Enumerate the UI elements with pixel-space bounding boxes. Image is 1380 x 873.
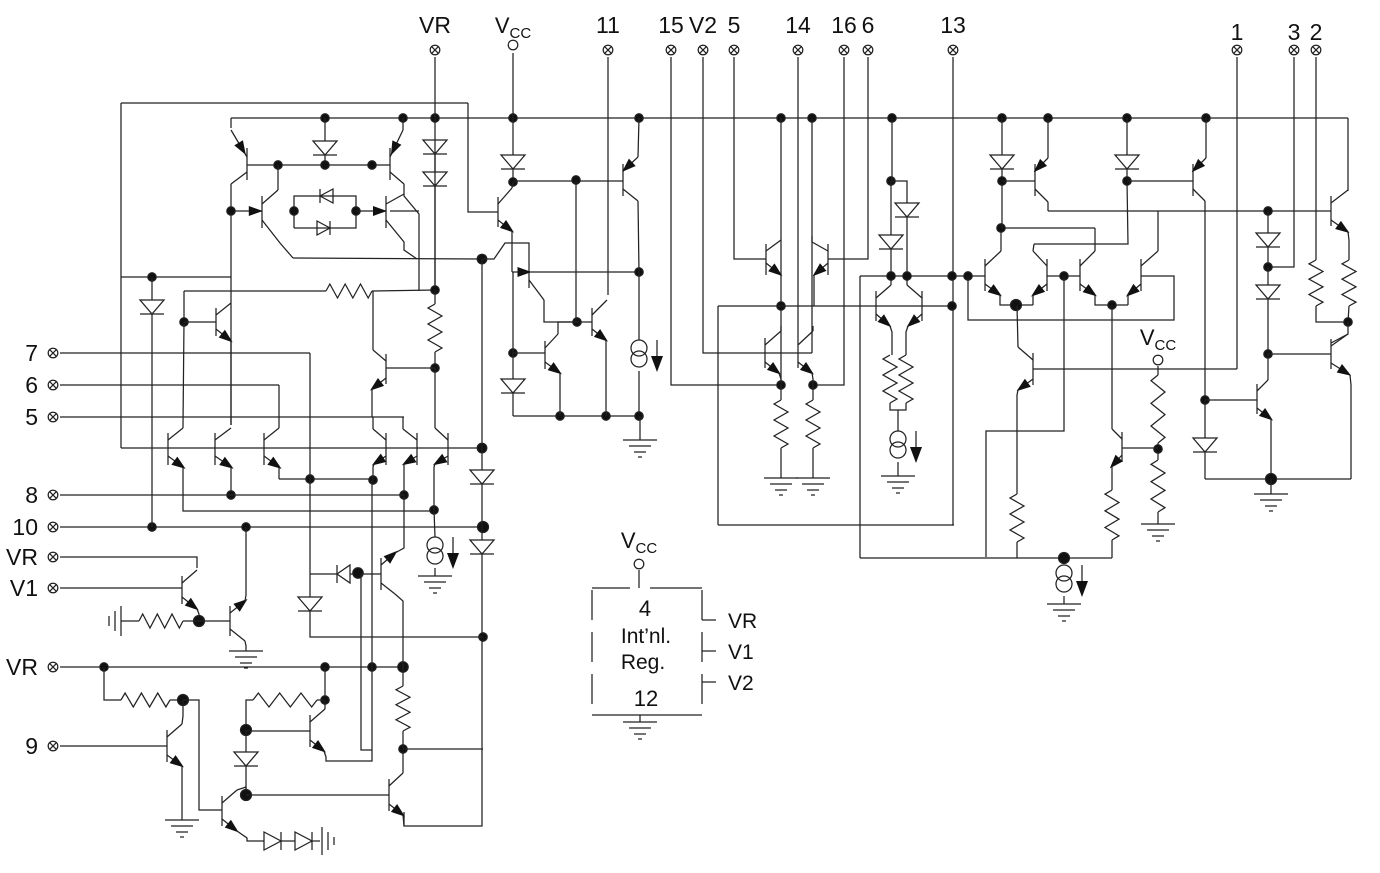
junction VR2 b bbox=[321, 663, 329, 671]
wire quad emitters a2 bbox=[1032, 295, 1034, 305]
wire R12 out bbox=[1348, 306, 1349, 322]
junction pair left bbox=[290, 207, 298, 215]
wire R2 top bbox=[434, 290, 436, 304]
wire D12 anode bbox=[1001, 118, 1003, 155]
wire Q28 emitter top bbox=[1047, 118, 1049, 158]
junction y276 d10 bbox=[903, 272, 911, 280]
wire Qbig base line bbox=[246, 794, 389, 796]
resistor R7 bbox=[1010, 494, 1024, 542]
resistor R4 bbox=[899, 355, 913, 403]
svg-text:14: 14 bbox=[785, 12, 811, 38]
resistor R16 bbox=[396, 686, 410, 731]
wire chassis to R13 bbox=[121, 620, 139, 622]
wire Q34 base bbox=[1205, 399, 1257, 401]
diode D1 bbox=[313, 141, 337, 155]
wire box VR stub bbox=[702, 619, 716, 621]
arrow Q13 emitter bbox=[518, 267, 532, 277]
diode D11 bbox=[879, 235, 903, 249]
wire pin7 down2 bbox=[309, 479, 311, 574]
wire V1 line bbox=[60, 587, 182, 589]
wire Q9row collector bbox=[372, 417, 374, 429]
wire jog right bbox=[891, 181, 907, 203]
wire Q2 collector down bbox=[404, 184, 419, 291]
wire Q35 emitter bbox=[197, 609, 199, 621]
wire VR2 branch bbox=[104, 667, 121, 700]
transistor Q39 npn bbox=[310, 709, 326, 753]
junction on VCC bus x=1048 bbox=[1044, 114, 1052, 122]
current source I2 bbox=[631, 340, 663, 372]
wire to QbotC base bbox=[183, 700, 222, 810]
wire pin9 line bbox=[60, 745, 167, 747]
wire Q28 base bbox=[1002, 180, 1035, 182]
junction quad em b bbox=[1108, 301, 1116, 309]
wire Q41 collector down bbox=[395, 594, 403, 667]
chassis symbol 1 bbox=[109, 606, 121, 636]
ground G1 bbox=[418, 576, 452, 593]
wire Q3 collector run y259 bbox=[293, 258, 482, 259]
wire R15 left corner bbox=[246, 700, 253, 730]
wire Q23 collector bbox=[812, 326, 814, 331]
wire VR pin lead bbox=[434, 57, 436, 290]
svg-text:4: 4 bbox=[639, 596, 651, 621]
wire Q22-Q23 base tie bbox=[765, 352, 812, 354]
junction y276 13b bbox=[964, 272, 972, 280]
wire pin8 line bbox=[60, 494, 404, 496]
junction y416 a bbox=[556, 412, 564, 420]
pin V2 terminal bbox=[698, 45, 708, 55]
ground G4 bbox=[764, 478, 798, 495]
wire y416 gnd stub bbox=[639, 416, 641, 440]
resistor R13 bbox=[139, 614, 183, 628]
svg-text:Int’nl.: Int’nl. bbox=[621, 625, 671, 648]
arrow Q3 emitter bbox=[249, 206, 263, 216]
wire pin 11 lead bbox=[607, 57, 609, 295]
junction quad base mid bbox=[1060, 272, 1068, 280]
wire Q3 emitter bbox=[231, 210, 262, 212]
wire pair emitter join b bbox=[906, 326, 908, 355]
junction on VCC bus x=403 bbox=[399, 114, 407, 122]
junction D13 node bbox=[1123, 177, 1131, 185]
transistor Q1 pnp bbox=[231, 130, 247, 184]
wire rail corner to Q5 base bbox=[183, 291, 185, 322]
transistor Q32 npn bbox=[1331, 190, 1350, 233]
chassis symbol 2 bbox=[322, 827, 334, 855]
wire pin 15 lead bbox=[671, 57, 781, 385]
wire D11 out bbox=[890, 249, 892, 276]
wire D8 out bbox=[512, 169, 514, 182]
wire base rail y448 bbox=[121, 447, 482, 449]
wire loop y525 bbox=[718, 524, 954, 526]
pin 14 terminal bbox=[793, 45, 803, 55]
wire Q9row emitter bbox=[373, 464, 374, 480]
transistor Q40 npn bbox=[389, 773, 405, 817]
transistor Q35 npn bbox=[182, 570, 199, 610]
wire loop up x860 bbox=[859, 276, 861, 558]
wire R16 bottom lead bbox=[402, 731, 404, 749]
wire D5 out bbox=[434, 186, 436, 290]
wire Q34 emitter bbox=[1270, 419, 1272, 479]
junction pin10 b bbox=[242, 523, 250, 531]
wire long rail x482 upper bbox=[481, 259, 483, 470]
wire D20 left bbox=[310, 573, 337, 575]
wire I1 top bbox=[434, 510, 435, 537]
ground G2 bbox=[623, 440, 657, 457]
wire Q6row emitter bbox=[183, 467, 434, 511]
wire D21 out y637 bbox=[310, 611, 483, 637]
left pin 9 terminal bbox=[48, 741, 58, 751]
pin VR terminal bbox=[430, 45, 440, 55]
wire Q14 collector down bbox=[638, 201, 639, 272]
transistor Q13 pnp bbox=[529, 256, 544, 300]
left pin 7 terminal bbox=[48, 348, 58, 358]
svg-text:VR: VR bbox=[6, 544, 38, 570]
transistor Q23 npn bbox=[798, 331, 814, 375]
wire Q12 collector bbox=[512, 182, 513, 188]
wire R15 out right bbox=[317, 699, 325, 701]
resistor R8 bbox=[1151, 375, 1165, 443]
svg-text:10: 10 bbox=[12, 514, 38, 540]
wire pin10 line bbox=[60, 526, 483, 528]
current source I4 bbox=[1056, 565, 1088, 597]
svg-text:6: 6 bbox=[25, 372, 38, 398]
wire Q29 collector rail bbox=[1204, 201, 1206, 400]
junction R1 right bbox=[431, 286, 439, 294]
junction Q3 emitter node bbox=[227, 207, 235, 215]
wire Q16 emitter bbox=[605, 340, 607, 416]
wire x576 link bbox=[575, 180, 577, 322]
wire Q5m collector up bbox=[372, 291, 374, 350]
svg-text:VR: VR bbox=[419, 12, 451, 38]
wire QR1b collector feed bbox=[1331, 322, 1348, 343]
wire Q23 emitter bbox=[812, 373, 813, 385]
wire R9 out bbox=[1157, 512, 1159, 524]
svg-text:1: 1 bbox=[1231, 19, 1244, 45]
wire D19 out bbox=[245, 766, 247, 795]
wire D17-D18 bbox=[281, 840, 295, 842]
resistor R12 bbox=[1342, 260, 1356, 306]
wire y211 line bbox=[1048, 210, 1268, 212]
svg-text:VR: VR bbox=[728, 610, 757, 633]
wire pin 2 lead bbox=[1315, 57, 1317, 260]
transistor Q3 pnp bbox=[262, 190, 293, 258]
wire Q7row emitter bbox=[230, 467, 232, 495]
wire Q30 collector bbox=[1017, 306, 1018, 347]
wire y558 line bbox=[860, 557, 1112, 559]
wire top-left frame top bbox=[121, 102, 468, 104]
block Int'nl Reg dashed box bbox=[592, 588, 702, 715]
transistor Q10 npn row bbox=[402, 429, 417, 465]
wire D18 out bbox=[312, 840, 320, 842]
wire Q1 collector rail bbox=[230, 184, 232, 425]
wire QbotB base line bbox=[246, 730, 310, 732]
wire Q2 emitter top bbox=[402, 118, 404, 130]
svg-text:V2: V2 bbox=[689, 12, 717, 38]
wire D19 anode bbox=[245, 730, 247, 752]
wire y479 line bbox=[279, 478, 373, 480]
wire quad base mid bbox=[1047, 275, 1080, 277]
terminal VCC3 bbox=[634, 559, 644, 569]
ground G10 bbox=[165, 820, 199, 837]
pin 16 terminal bbox=[839, 45, 849, 55]
wire x891 down bbox=[890, 181, 892, 235]
wire pin5 line bbox=[60, 416, 404, 418]
ground G6 bbox=[1047, 604, 1081, 621]
wire long rail x482 mid bbox=[481, 484, 483, 540]
diode D10 bbox=[895, 203, 919, 217]
wire Q36 emitter up bbox=[245, 527, 246, 601]
svg-text:V1: V1 bbox=[10, 575, 38, 601]
resistor R5 bbox=[774, 400, 788, 448]
wire I1 bottom bbox=[434, 568, 436, 576]
junction y416 b bbox=[602, 412, 610, 420]
junction y558 bbox=[1059, 553, 1070, 564]
wire Q41 emitter up bbox=[395, 495, 404, 553]
wire I2 out bbox=[638, 371, 640, 416]
wire Q39 emitter loop bbox=[324, 480, 372, 761]
transistor Q25 npn quad bbox=[1031, 251, 1047, 297]
junction base rail b bbox=[321, 161, 329, 169]
wire VCC3 lead bbox=[638, 570, 640, 588]
wire Q19 collector diag bbox=[811, 236, 813, 242]
wire quad emitters b bbox=[1095, 295, 1128, 305]
diode D5 bbox=[423, 172, 447, 186]
transistor Q34 npn bbox=[1257, 380, 1273, 421]
junction on VCC bus x=435 bbox=[431, 114, 439, 122]
junction R11 R12 bbox=[1344, 318, 1352, 326]
junction y276 13a bbox=[948, 272, 956, 280]
transistor Q41 npn bbox=[381, 551, 398, 594]
wire box bottom stub bbox=[121, 276, 231, 278]
wire long rail x482 lower bbox=[404, 554, 482, 826]
junction R8 node bbox=[1154, 445, 1162, 453]
wire R2 bottom bbox=[434, 352, 436, 368]
left pin 8 terminal bbox=[48, 490, 58, 500]
wire pin 5 lead bbox=[734, 57, 766, 259]
wire pin 14 lead bbox=[797, 57, 799, 338]
wire Q25 collector bbox=[1033, 244, 1034, 251]
transistor Q8 npn row bbox=[264, 428, 282, 469]
diode D16 bbox=[1193, 438, 1217, 452]
resistor R1 bbox=[326, 284, 372, 298]
pin 11 terminal bbox=[603, 45, 613, 55]
wire Q15 collector bbox=[558, 322, 577, 334]
junction base node bbox=[194, 616, 205, 627]
transistor Q6 npn row bbox=[168, 428, 186, 469]
junction y211 right bbox=[1264, 207, 1272, 215]
wire Q13 out diag bbox=[544, 300, 577, 322]
wire D6 anode bbox=[151, 277, 153, 300]
junction on VCC bus x=812 bbox=[808, 114, 816, 122]
pin 1 terminal bbox=[1232, 45, 1242, 55]
svg-text:VCC: VCC bbox=[621, 528, 658, 557]
diode D13 bbox=[1115, 155, 1139, 169]
resistor R11 bbox=[1309, 260, 1323, 306]
wire x892 from bus bbox=[891, 118, 893, 181]
diode D8 bbox=[501, 155, 525, 169]
wire bus right corner down bbox=[1347, 118, 1349, 191]
junction quad em a bbox=[1011, 300, 1022, 311]
wire Q30 base line y369 bbox=[1033, 368, 1237, 370]
diode D12 bbox=[990, 155, 1014, 169]
svg-text:16: 16 bbox=[831, 12, 857, 38]
wire R5 bottom bbox=[780, 448, 782, 478]
wire Q24-Q26 collector tie bbox=[1001, 227, 1095, 229]
wire D6 cathode bbox=[151, 314, 153, 527]
wire R16 top bbox=[402, 667, 404, 686]
diode D20 left-pointing bbox=[337, 565, 350, 583]
junction y322 node bbox=[573, 318, 581, 326]
wire base line y276 bbox=[860, 275, 985, 277]
transistor Q11 npn row bbox=[433, 428, 448, 465]
wire Q8row collector bbox=[278, 385, 280, 428]
left pin VR terminal bbox=[48, 662, 58, 672]
wire quad emitters b2 bbox=[1127, 295, 1129, 305]
pin 5 terminal bbox=[729, 45, 739, 55]
wire pin 13 lead bbox=[952, 57, 954, 525]
junction on VCC bus x=513 bbox=[509, 114, 517, 122]
wire Q33 emitter bbox=[1350, 375, 1351, 479]
left pin 6 terminal bbox=[48, 380, 58, 390]
wire pin7 down bbox=[309, 353, 311, 479]
wire Q19 emitter down bbox=[813, 275, 815, 306]
diode D18 bbox=[295, 832, 312, 850]
left pin 5 terminal bbox=[48, 412, 58, 422]
wire Q31 emitter bbox=[1111, 466, 1113, 490]
wire D10 out bbox=[906, 217, 908, 276]
wire Q15 emitter bbox=[559, 373, 561, 416]
junction pin3 node bbox=[1264, 263, 1272, 271]
junction x1205 y400 bbox=[1201, 396, 1209, 404]
pin 3 terminal bbox=[1289, 45, 1299, 55]
transistor Q33 npn bbox=[1331, 334, 1351, 376]
svg-text:8: 8 bbox=[25, 482, 38, 508]
wire frame corner down to Q6 base bbox=[468, 103, 498, 212]
wire pin 6 lead bbox=[828, 57, 868, 259]
svg-text:V1: V1 bbox=[728, 641, 754, 664]
transistor Q24 npn quad bbox=[985, 251, 1002, 296]
wire pin 1 lead bbox=[1236, 57, 1238, 369]
junction y322 left bbox=[180, 318, 188, 326]
resistor R14 bbox=[121, 693, 170, 707]
wire loop down x718 bbox=[717, 306, 719, 525]
pin VCC terminal bbox=[508, 40, 518, 50]
wire base to Q36 bbox=[199, 620, 230, 622]
resistor R3 bbox=[883, 355, 897, 403]
junction pair right bbox=[352, 207, 360, 215]
junction on VCC bus x=1206 bbox=[1202, 114, 1210, 122]
transistor Q5m pnp bbox=[370, 350, 386, 391]
diode D21 bbox=[298, 597, 322, 611]
ground G3 bbox=[881, 476, 915, 493]
junction D20 node bbox=[353, 568, 363, 578]
ground G7 bbox=[1141, 524, 1175, 541]
transistor Q20 npn pair bbox=[876, 285, 891, 327]
junction x781 y306 bbox=[777, 302, 785, 310]
junction R16 bottom bbox=[399, 745, 407, 753]
diode D19 bbox=[234, 752, 258, 766]
transistor Q26 npn quad bbox=[1080, 251, 1097, 296]
wire emitter rail y416 bbox=[513, 415, 640, 417]
diode D17 bbox=[264, 832, 281, 850]
wire Q33 base bbox=[1268, 353, 1331, 355]
wire VCC2 lead bbox=[1157, 366, 1159, 375]
wire Q38 emitter bbox=[181, 766, 183, 820]
wire Q32 base bbox=[1268, 210, 1331, 212]
terminal VCC2 bbox=[1153, 355, 1163, 365]
wire x812 rail bbox=[811, 118, 813, 353]
transistor Q28 pnp bbox=[1034, 158, 1048, 202]
wire Q14 emitter top bbox=[638, 118, 639, 157]
wire Q10row collector bbox=[402, 417, 404, 429]
wire Q16 base bbox=[577, 321, 592, 323]
wire Q5m emitter down bbox=[371, 389, 373, 417]
svg-text:VCC: VCC bbox=[495, 13, 532, 42]
junction collector tie bbox=[997, 224, 1005, 232]
wire VCC pin lead bbox=[512, 53, 514, 155]
wire Q37 emitter bbox=[237, 831, 264, 841]
transistor Q21 npn pair bbox=[907, 285, 922, 327]
wire Q3 top to base rail bbox=[277, 165, 279, 190]
left pin 10 terminal bbox=[48, 522, 58, 532]
ground G11 bbox=[623, 722, 657, 739]
transistor Q12 npn bbox=[498, 188, 514, 233]
transistor Q14 pnp bbox=[622, 157, 638, 201]
wire gnd stub right bbox=[1270, 479, 1272, 494]
wire R11 out bbox=[1316, 306, 1348, 322]
wire D16 anode bbox=[1204, 400, 1206, 438]
svg-text:15: 15 bbox=[658, 12, 684, 38]
wire Q22 collector bbox=[780, 326, 782, 331]
wire D13 anode bbox=[1126, 118, 1128, 155]
wire R13 out bbox=[183, 620, 199, 622]
wire pin7 line bbox=[60, 352, 310, 354]
junction left y353 bbox=[509, 349, 517, 357]
resistor R9 bbox=[1151, 460, 1165, 512]
transistor Q9 npn row bbox=[372, 429, 386, 466]
junction y479 a bbox=[306, 475, 314, 483]
wire Q10row emitter bbox=[403, 464, 405, 495]
transistor Q36 npn bbox=[230, 599, 248, 641]
wire pin V2 lead bbox=[703, 57, 765, 353]
wire VR2 branch2 bbox=[324, 667, 326, 700]
wire Q30 emitter bbox=[1017, 390, 1018, 494]
junction y479r bbox=[1266, 474, 1277, 485]
wire box V1 stub bbox=[702, 650, 716, 652]
wire R14 out bbox=[170, 699, 183, 701]
junction R14 node bbox=[178, 695, 189, 706]
transistor Q30 pnp bbox=[1017, 347, 1033, 391]
svg-text:Reg.: Reg. bbox=[621, 651, 665, 674]
wire Q36 collector bbox=[245, 641, 246, 651]
wire Q4 emitter bbox=[356, 210, 386, 212]
wire y749 to x482 bbox=[403, 748, 483, 750]
wire R10 out bbox=[1111, 540, 1113, 558]
wire box V2 stub bbox=[702, 681, 716, 683]
junction y180 bbox=[572, 176, 580, 184]
wire Q4 emitter ext bbox=[390, 210, 419, 212]
svg-text:VCC: VCC bbox=[1140, 325, 1177, 354]
wire D1 cathode to base rail bbox=[324, 155, 326, 165]
wire R6 bottom bbox=[812, 448, 814, 478]
diode D9 bbox=[501, 379, 525, 393]
current source I3 bbox=[890, 431, 922, 463]
junction y479 b bbox=[369, 476, 377, 484]
diode D4 bbox=[423, 140, 447, 154]
svg-text:6: 6 bbox=[862, 12, 875, 38]
svg-text:13: 13 bbox=[940, 12, 966, 38]
transistor Q38 npn bbox=[167, 724, 184, 767]
transistor Q19 pnp mid bbox=[812, 242, 828, 276]
